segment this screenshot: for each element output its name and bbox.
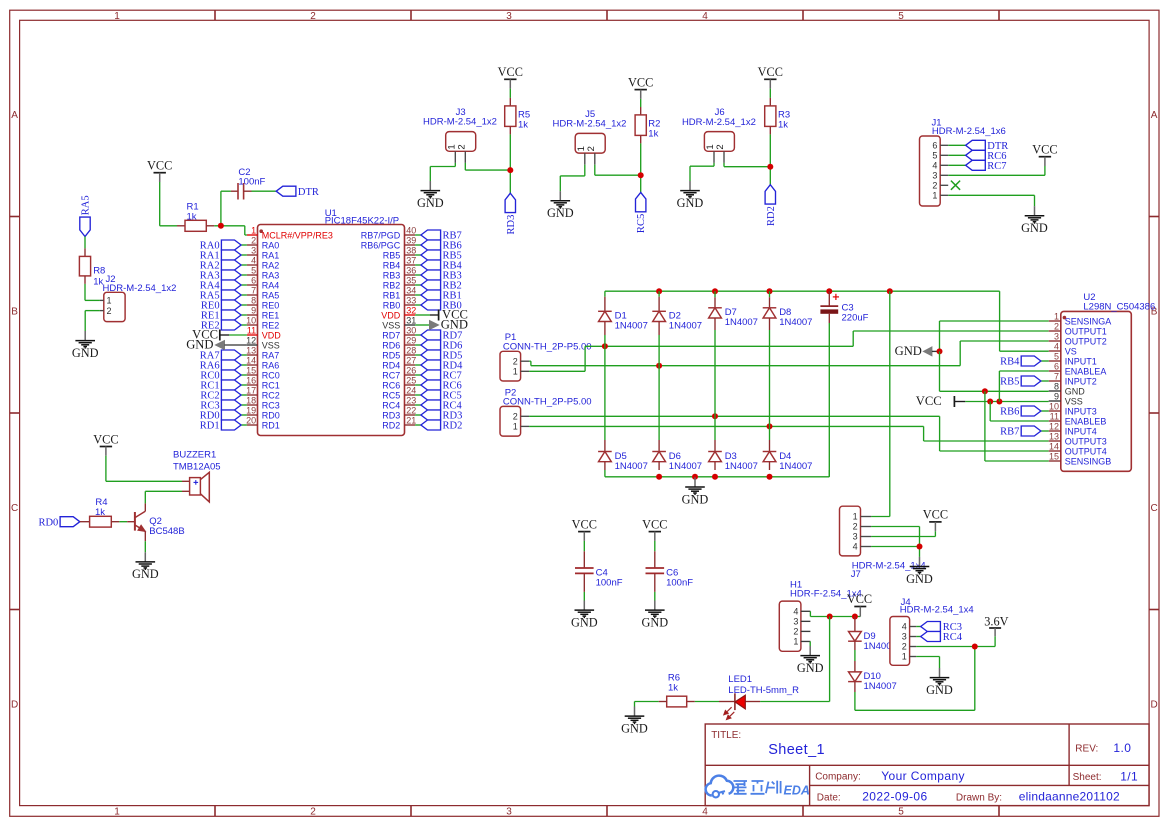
svg-text:LED-TH-5mm_R: LED-TH-5mm_R xyxy=(728,685,799,696)
svg-text:1N4007: 1N4007 xyxy=(864,681,897,692)
power VCC at J1 pin3 xyxy=(1039,156,1051,158)
U1 right pins 21-40 xyxy=(361,226,417,431)
wire R1 to U1 pin1 and C2 xyxy=(214,191,247,235)
wire buzzer pin2 to Q2 collector xyxy=(145,491,182,503)
svg-text:1k: 1k xyxy=(668,683,678,694)
svg-text:VCC: VCC xyxy=(916,394,942,408)
svg-text:4: 4 xyxy=(853,542,858,552)
svg-text:ENABLEB: ENABLEB xyxy=(1065,416,1107,426)
svg-text:2: 2 xyxy=(586,146,597,151)
svg-text:RB5: RB5 xyxy=(1000,377,1019,388)
wire bus3 OUTPUT4 net (P2 pin2) xyxy=(529,416,1049,451)
ground GND below J1 xyxy=(1034,206,1036,215)
svg-text:11: 11 xyxy=(1050,412,1059,422)
connector J6 HDR-M-2.54_1x2 xyxy=(682,107,756,163)
svg-text:OUTPUT1: OUTPUT1 xyxy=(1065,326,1107,336)
net flag RC7 at J1 pin 4 xyxy=(948,160,1006,172)
svg-text:3: 3 xyxy=(1054,332,1059,342)
svg-text:TITLE:: TITLE: xyxy=(711,730,741,741)
wire J2 pin2 to ground xyxy=(85,311,100,331)
svg-text:1N4007: 1N4007 xyxy=(669,320,702,331)
junction U2 GND net xyxy=(937,348,943,354)
net flag RC5 (U1 pin 24) xyxy=(415,390,462,402)
wire J6 pin2 to R3 net xyxy=(724,163,770,167)
net flag RA4 (U1 pin 6) xyxy=(200,280,247,292)
ground GND below Q2 xyxy=(144,552,146,561)
svg-text:1N4007: 1N4007 xyxy=(615,320,648,331)
net flag RC7 (U1 pin 26) xyxy=(415,370,462,382)
svg-text:1: 1 xyxy=(902,652,907,662)
wire J7 pin3 to VCC xyxy=(871,531,935,536)
wire V1 top bus to J7 pin1 xyxy=(871,291,890,516)
wire D10 to 3.6V net xyxy=(855,647,975,711)
svg-text:RC2: RC2 xyxy=(262,390,280,400)
net flag RA6 (U1 pin 14) xyxy=(200,360,247,372)
wire Q2 emitter to ground xyxy=(144,541,146,552)
svg-text:RB6: RB6 xyxy=(1000,407,1019,418)
wire J4 pin1 to ground xyxy=(916,657,939,669)
svg-text:HDR-M-2.54_1x4: HDR-M-2.54_1x4 xyxy=(900,605,974,616)
svg-text:3: 3 xyxy=(902,632,907,642)
svg-text:Drawn By:: Drawn By: xyxy=(956,793,1002,804)
svg-text:Q2: Q2 xyxy=(149,516,162,527)
svg-text:A: A xyxy=(1151,110,1158,121)
svg-text:REV:: REV: xyxy=(1075,744,1098,755)
net flag RB5 at U2 xyxy=(1000,376,1049,388)
svg-text:VCC: VCC xyxy=(93,432,118,446)
ground GND below C6 xyxy=(654,601,656,610)
junction VCC net at ENABLEA xyxy=(996,399,1002,405)
svg-text:Sheet_1: Sheet_1 xyxy=(768,742,825,758)
transistor Q2 BC548B xyxy=(127,503,184,541)
net flag DTR near C2 xyxy=(276,186,319,198)
svg-text:D: D xyxy=(1150,700,1157,711)
svg-text:1: 1 xyxy=(513,367,518,377)
wire D8 column xyxy=(769,291,771,440)
svg-text:RA0: RA0 xyxy=(262,240,280,250)
svg-text:4: 4 xyxy=(793,607,798,617)
svg-text:RD0: RD0 xyxy=(38,517,58,528)
svg-text:1: 1 xyxy=(793,637,798,647)
svg-text:RD7: RD7 xyxy=(382,330,400,340)
svg-text:1k: 1k xyxy=(778,119,788,130)
svg-text:14: 14 xyxy=(1049,442,1059,452)
svg-text:1: 1 xyxy=(251,226,256,236)
svg-text:10: 10 xyxy=(1049,402,1059,412)
net flag RA5 vertical xyxy=(80,195,92,236)
svg-text:VCC: VCC xyxy=(498,65,523,79)
net flag RD0 at Q2 base xyxy=(38,517,79,529)
net flag RD4 (U1 pin 27) xyxy=(415,360,463,372)
svg-text:2: 2 xyxy=(793,627,798,637)
svg-text:1k: 1k xyxy=(518,119,528,130)
svg-text:2: 2 xyxy=(310,806,316,817)
svg-text:11: 11 xyxy=(247,326,256,336)
ground GND below J2 xyxy=(84,331,86,340)
power VCC at J7 pin3 xyxy=(929,521,941,523)
svg-text:2022-09-06: 2022-09-06 xyxy=(862,790,927,804)
net flag RA7 (U1 pin 13) xyxy=(200,350,247,362)
svg-text:RD2: RD2 xyxy=(382,420,400,430)
power VCC at H1 pin4 xyxy=(847,592,872,617)
svg-text:33: 33 xyxy=(406,296,416,306)
diode D1 1N4007 xyxy=(604,297,606,312)
svg-text:5: 5 xyxy=(1054,352,1059,362)
svg-text:SENSINGA: SENSINGA xyxy=(1065,316,1112,326)
svg-text:1: 1 xyxy=(513,422,518,432)
svg-text:2: 2 xyxy=(251,236,256,246)
svg-text:RD3: RD3 xyxy=(382,410,400,420)
svg-text:VCC: VCC xyxy=(642,517,667,531)
svg-text:HDR-M-2.54_1x6: HDR-M-2.54_1x6 xyxy=(932,126,1006,137)
svg-text:4: 4 xyxy=(1054,342,1059,352)
junction J3/R5/RD3 xyxy=(507,167,513,173)
wire D9 to D10 xyxy=(854,650,856,661)
svg-text:VCC: VCC xyxy=(572,517,597,531)
svg-text:1N4007: 1N4007 xyxy=(725,317,758,328)
svg-text:2: 2 xyxy=(310,11,316,22)
svg-text:GND: GND xyxy=(895,344,922,358)
junction bottom bus at D4 xyxy=(767,474,773,480)
svg-text:INPUT4: INPUT4 xyxy=(1065,426,1097,436)
svg-text:5: 5 xyxy=(898,11,904,22)
svg-text:INPUT3: INPUT3 xyxy=(1065,406,1097,416)
svg-text:100nF: 100nF xyxy=(238,176,265,187)
power VCC at U1 pin 11 xyxy=(192,328,247,342)
junction bottom bus at D3 xyxy=(712,474,718,480)
svg-text:32: 32 xyxy=(406,306,416,316)
svg-text:1: 1 xyxy=(932,191,937,201)
wire U2 pin15 SENSINGB to GND net xyxy=(985,391,1049,461)
ground GND at U1 pin 12 xyxy=(186,338,247,352)
svg-text:GND: GND xyxy=(797,661,824,675)
net flag RE0 (U1 pin 8) xyxy=(201,300,247,312)
wire J5 pin1 to ground xyxy=(560,165,585,191)
svg-text:3: 3 xyxy=(506,11,512,22)
net flag RB4 (U1 pin 37) xyxy=(415,260,462,272)
junction J5/R2/RC5 xyxy=(638,172,644,178)
svg-text:GND: GND xyxy=(621,721,648,735)
diode D7 1N4007 xyxy=(714,297,716,308)
svg-text:VS: VS xyxy=(1065,346,1077,356)
svg-text:D: D xyxy=(11,700,18,711)
svg-text:RB2: RB2 xyxy=(383,280,401,290)
svg-text:VCC: VCC xyxy=(1032,143,1057,157)
junction top bus at D8 xyxy=(767,288,773,294)
svg-text:1N4007: 1N4007 xyxy=(615,461,648,472)
svg-text:29: 29 xyxy=(406,336,416,346)
svg-text:RA6: RA6 xyxy=(262,360,280,370)
svg-text:4: 4 xyxy=(702,11,708,22)
capacitor C6 100nF xyxy=(646,541,694,592)
svg-text:MCLR#/VPP/RE3: MCLR#/VPP/RE3 xyxy=(262,230,333,240)
resistor R8 1k xyxy=(79,248,105,287)
svg-text:28: 28 xyxy=(406,346,416,356)
svg-text:RE0: RE0 xyxy=(262,300,280,310)
svg-text:31: 31 xyxy=(406,316,416,326)
svg-text:RE1: RE1 xyxy=(262,310,280,320)
ground GND below R6 xyxy=(634,707,636,716)
svg-text:30: 30 xyxy=(406,326,416,336)
svg-text:3: 3 xyxy=(932,171,937,181)
svg-text:100nF: 100nF xyxy=(666,577,693,588)
svg-text:L298N_C504386: L298N_C504386 xyxy=(1083,302,1155,313)
svg-text:21: 21 xyxy=(406,416,416,426)
svg-text:1: 1 xyxy=(853,512,858,522)
svg-text:Date:: Date: xyxy=(817,792,841,803)
svg-text:37: 37 xyxy=(406,256,416,266)
svg-text:2: 2 xyxy=(902,642,907,652)
diode D9 1N4007 xyxy=(848,617,897,652)
ground GND below J4 xyxy=(939,668,941,677)
wire R5 to junction and RD3 xyxy=(509,134,511,193)
svg-text:GND: GND xyxy=(72,346,99,360)
net flag RB5 (U1 pin 38) xyxy=(415,250,462,262)
svg-text:EDA: EDA xyxy=(784,784,810,798)
connector J7 HDR-M-2.54_1x4 xyxy=(840,506,926,580)
svg-text:7: 7 xyxy=(1054,372,1059,382)
wire U2 pin4 VS stub xyxy=(1000,350,1049,352)
net flag RA5 (U1 pin 7) xyxy=(200,290,247,302)
svg-text:2: 2 xyxy=(107,306,112,316)
svg-text:GND: GND xyxy=(906,572,933,586)
svg-text:1.0: 1.0 xyxy=(1113,741,1131,755)
svg-text:OUTPUT2: OUTPUT2 xyxy=(1065,336,1107,346)
connector P2 CONN-TH_2P-P5.00 xyxy=(500,387,592,436)
power VCC above R5 xyxy=(504,78,516,80)
svg-text:RE2: RE2 xyxy=(262,320,280,330)
net flag RC6 at J1 pin 5 xyxy=(948,150,1006,162)
ground GND below J6 xyxy=(689,181,691,190)
svg-text:3: 3 xyxy=(793,617,798,627)
svg-text:RD2: RD2 xyxy=(766,206,777,226)
svg-text:25: 25 xyxy=(406,376,416,386)
wire J1 pin3 to VCC xyxy=(948,166,1045,175)
svg-text:19: 19 xyxy=(246,406,256,416)
diode D6 1N4007 xyxy=(658,440,660,452)
net flag RC3 (U1 pin 18) xyxy=(200,400,247,412)
junction top bus at J7 feed xyxy=(887,288,893,294)
svg-text:13: 13 xyxy=(246,346,256,356)
net flag RC4 at J4 xyxy=(916,632,963,644)
connector H1 HDR-F-2.54_1x4 xyxy=(779,580,862,652)
no-connect X at J1 pin2 xyxy=(951,181,960,190)
diode D4 1N4007 xyxy=(769,440,771,452)
net flag RD7 (U1 pin 30) xyxy=(415,330,462,342)
resistor R4 1k xyxy=(80,497,120,527)
junction U2 pin8/pin15 xyxy=(982,388,988,394)
net flag RB7 (U1 pin 40) xyxy=(415,230,462,242)
wire RA5 to R8 xyxy=(84,237,86,249)
net flag RD5 (U1 pin 28) xyxy=(415,350,462,362)
svg-text:RC3: RC3 xyxy=(262,400,280,410)
wire top bus C3/VS net xyxy=(605,291,1000,351)
junction bus2 at D2 column xyxy=(656,363,662,369)
svg-text:GND: GND xyxy=(677,196,704,210)
svg-text:15: 15 xyxy=(246,366,256,376)
svg-text:elindaanne201102: elindaanne201102 xyxy=(1019,790,1120,804)
svg-text:2: 2 xyxy=(853,522,858,532)
svg-text:C: C xyxy=(11,503,18,514)
junction bus1 at D1 column xyxy=(602,343,608,349)
junction 3.6V net xyxy=(972,644,978,650)
wire U2 pin1 SENSINGA to GND net xyxy=(940,321,1049,351)
svg-text:HDR-M-2.54_1x2: HDR-M-2.54_1x2 xyxy=(553,119,627,130)
svg-text:VSS: VSS xyxy=(382,320,400,330)
svg-text:GND: GND xyxy=(417,196,444,210)
svg-text:2: 2 xyxy=(456,144,467,149)
svg-text:RA4: RA4 xyxy=(262,280,280,290)
op-amp U2 body L298N_C504386 xyxy=(1061,292,1155,471)
svg-text:TMB12A05: TMB12A05 xyxy=(173,461,221,472)
svg-text:VCC: VCC xyxy=(847,592,872,606)
svg-text:12: 12 xyxy=(1049,422,1059,432)
svg-text:7: 7 xyxy=(251,286,256,296)
svg-text:5: 5 xyxy=(251,266,256,276)
net flag RA2 (U1 pin 4) xyxy=(200,260,247,272)
svg-text:RC5: RC5 xyxy=(636,214,647,233)
net flag RC0 (U1 pin 15) xyxy=(200,370,247,382)
svg-text:RA2: RA2 xyxy=(262,260,280,270)
svg-text:J7: J7 xyxy=(851,569,861,580)
svg-text:GND: GND xyxy=(641,615,668,629)
wire J3 pin1 to ground xyxy=(430,163,455,181)
net flag RB6 at U2 xyxy=(1000,406,1049,418)
net flag RA1 (U1 pin 3) xyxy=(200,250,247,262)
svg-text:3.6V: 3.6V xyxy=(984,614,1008,628)
svg-text:Sheet:: Sheet: xyxy=(1073,772,1102,783)
wire bus2 OUTPUT2 net (P1 pin2) xyxy=(529,341,1049,366)
net flag RD1 (U1 pin 20) xyxy=(200,420,247,432)
svg-text:GND: GND xyxy=(1021,221,1048,235)
svg-text:VDD: VDD xyxy=(381,310,401,320)
svg-text:8: 8 xyxy=(1054,382,1059,392)
net flag RB2 (U1 pin 35) xyxy=(415,280,462,292)
svg-text:40: 40 xyxy=(406,226,416,236)
junction at R1 output xyxy=(218,223,224,229)
svg-text:4: 4 xyxy=(902,622,907,632)
svg-text:BC548B: BC548B xyxy=(149,526,184,537)
net flag RE1 (U1 pin 9) xyxy=(201,310,247,322)
svg-text:4: 4 xyxy=(251,256,256,266)
connector J4 HDR-M-2.54_1x4 xyxy=(890,597,974,665)
wire C6 to ground xyxy=(654,592,656,601)
svg-text:GND: GND xyxy=(186,338,213,352)
capacitor C2 100nF xyxy=(231,167,266,200)
svg-text:18: 18 xyxy=(246,396,256,406)
svg-text:RB7/PGD: RB7/PGD xyxy=(361,230,401,240)
svg-text:3: 3 xyxy=(853,532,858,542)
svg-text:VCC: VCC xyxy=(147,159,172,173)
junction VCC net at ENABLEB xyxy=(987,399,993,405)
net flag RC3 at J4 xyxy=(916,622,962,634)
diode D3 1N4007 xyxy=(714,440,716,452)
net flag RD3 vertical xyxy=(505,193,517,234)
connector J3 HDR-M-2.54_1x2 xyxy=(423,107,497,163)
power VCC above C6 xyxy=(649,531,661,533)
wire J6 pin1 to ground xyxy=(690,163,714,181)
svg-text:RB7: RB7 xyxy=(1000,427,1019,438)
svg-text:RD0: RD0 xyxy=(262,410,280,420)
svg-text:3: 3 xyxy=(251,246,256,256)
wire R6 to ground xyxy=(635,702,659,707)
svg-text:24: 24 xyxy=(406,386,416,396)
svg-text:R8: R8 xyxy=(93,265,105,276)
svg-text:VCC: VCC xyxy=(758,65,783,79)
wire J7 pin2 and pin4 to ground xyxy=(871,527,919,557)
junction H1 pin4 at LED branch xyxy=(827,614,833,620)
net flag RD3 (U1 pin 22) xyxy=(415,410,462,422)
power VCC flag at U2 pin9 xyxy=(916,394,1049,408)
wire J1 pin1 to ground xyxy=(948,195,1034,206)
wire D7 column xyxy=(714,291,716,440)
junction bottom bus at GND tap xyxy=(692,474,698,480)
svg-text:2: 2 xyxy=(513,356,518,366)
svg-text:RD5: RD5 xyxy=(382,350,400,360)
power VCC at U1 pin 32 xyxy=(415,308,468,322)
ground GND below C4 xyxy=(583,601,585,610)
net flag RB0 (U1 pin 33) xyxy=(415,300,462,312)
svg-text:10: 10 xyxy=(246,316,256,326)
svg-text:GND: GND xyxy=(441,318,468,332)
svg-text:1k: 1k xyxy=(187,211,197,222)
wire J4 pin2 to 3.6V xyxy=(916,636,995,646)
svg-text:4: 4 xyxy=(932,161,937,171)
svg-text:RB5: RB5 xyxy=(383,250,401,260)
svg-text:RA7: RA7 xyxy=(262,350,280,360)
svg-text:RB4: RB4 xyxy=(1000,357,1020,368)
diode D5 1N4007 xyxy=(604,440,606,452)
svg-text:RA5: RA5 xyxy=(262,290,280,300)
svg-text:23: 23 xyxy=(406,396,416,406)
svg-text:1: 1 xyxy=(114,806,120,817)
svg-text:GND: GND xyxy=(926,683,953,697)
power VCC above C4 xyxy=(578,531,590,533)
LED LED1 LED-TH-5mm_R xyxy=(719,674,799,720)
ground GND below J3 xyxy=(429,181,431,190)
power VCC above R2 xyxy=(635,89,647,91)
svg-text:38: 38 xyxy=(406,246,416,256)
svg-text:1k: 1k xyxy=(95,507,105,518)
resistor R2 1k xyxy=(635,99,660,143)
resistor R6 1k xyxy=(659,673,719,707)
capacitor C4 100nF xyxy=(575,541,623,592)
junction top bus at D7 xyxy=(712,288,718,294)
net flag RB6 (U1 pin 39) xyxy=(415,240,462,252)
wire R3 to junction and RD2 xyxy=(769,134,771,184)
svg-text:INPUT2: INPUT2 xyxy=(1065,376,1097,386)
svg-text:OUTPUT3: OUTPUT3 xyxy=(1065,436,1107,446)
svg-text:1N4007: 1N4007 xyxy=(669,461,702,472)
svg-text:RB1: RB1 xyxy=(383,290,401,300)
svg-text:RA1: RA1 xyxy=(262,250,280,260)
svg-text:GND: GND xyxy=(682,492,709,506)
title block texts xyxy=(711,730,1138,804)
wire H1 pin4 to VCC/D9/LED net xyxy=(810,611,860,616)
svg-text:GND: GND xyxy=(571,615,598,629)
svg-text:RC5: RC5 xyxy=(382,390,400,400)
connector P1 CONN-TH_2P-P5.00 xyxy=(500,332,592,381)
svg-text:VSS: VSS xyxy=(1065,396,1083,406)
ground GND at U1 pin 31 xyxy=(415,318,468,332)
svg-text:9: 9 xyxy=(1054,392,1059,402)
svg-text:36: 36 xyxy=(406,266,416,276)
junction top bus at C3 xyxy=(826,288,832,294)
net flag RC5 vertical xyxy=(636,192,648,233)
svg-text:RB4: RB4 xyxy=(383,260,401,270)
svg-text:OUTPUT4: OUTPUT4 xyxy=(1065,446,1107,456)
svg-text:16: 16 xyxy=(246,376,256,386)
